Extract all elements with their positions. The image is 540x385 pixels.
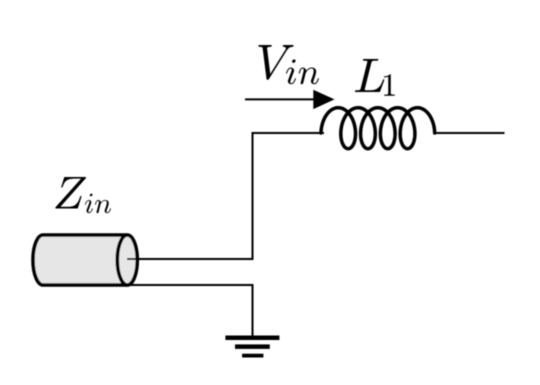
label Z_in bbox=[55, 177, 111, 213]
wire: source bottom to ground node bbox=[128, 284, 254, 286]
inductor L1 bbox=[321, 108, 435, 149]
coax source Z_in (cylinder) bbox=[33, 235, 137, 285]
ground bbox=[225, 336, 279, 358]
wire: vertical down to ground bbox=[252, 285, 254, 336]
wire: top rail to inductor bbox=[252, 132, 325, 134]
wire: source center to node bbox=[127, 258, 254, 260]
arrow V_in bbox=[245, 90, 335, 109]
label L_1 bbox=[355, 59, 395, 96]
label V_in bbox=[258, 45, 319, 84]
wire: vertical up to top rail bbox=[252, 132, 254, 260]
wire: inductor to open end bbox=[433, 132, 505, 134]
